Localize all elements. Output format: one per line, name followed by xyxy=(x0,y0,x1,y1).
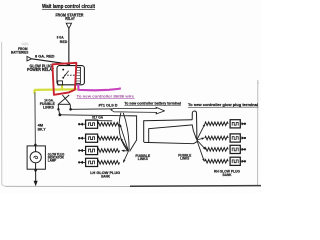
svg-text:LINKS: LINKS xyxy=(43,104,54,109)
svg-text:RELAY: RELAY xyxy=(65,16,75,21)
svg-text:To new controller battery term: To new controller battery terminal xyxy=(124,100,180,105)
svg-text:BK.Y: BK.Y xyxy=(38,127,46,131)
svg-text:BATTERIES: BATTERIES xyxy=(11,49,29,54)
svg-text:LINKS: LINKS xyxy=(138,156,148,161)
svg-text:8 GA. RED: 8 GA. RED xyxy=(35,54,55,59)
svg-text:LINKS: LINKS xyxy=(180,156,189,161)
svg-text:BANK: BANK xyxy=(101,174,110,179)
svg-text:To new controller glow plug te: To new controller glow plug terminal xyxy=(188,102,258,107)
svg-text:317 GA: 317 GA xyxy=(92,115,103,119)
svg-text:BANK: BANK xyxy=(223,172,232,177)
svg-text:RED: RED xyxy=(60,39,68,44)
svg-text:LAMP: LAMP xyxy=(48,159,57,163)
svg-text:#T1 OLS D: #T1 OLS D xyxy=(99,102,118,107)
svg-text:To new controller 86/86 wire: To new controller 86/86 wire xyxy=(77,93,135,98)
svg-text:POWER RELAY: POWER RELAY xyxy=(27,67,54,72)
